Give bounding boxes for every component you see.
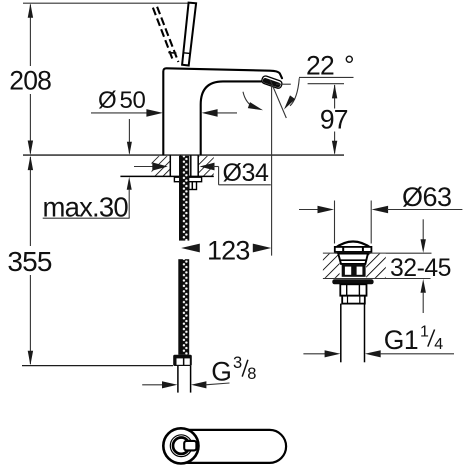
lever seam line [184, 52, 191, 55]
sink deck bottom line [323, 278, 431, 280]
hub middle ring [170, 435, 192, 457]
spout underside [201, 81, 262, 154]
hose end fitting [173, 355, 192, 366]
svg-text:G1: G1 [384, 325, 418, 355]
hose-end reference line [22, 365, 173, 367]
dimension 97 [334, 85, 336, 109]
jet direction line 22° [270, 80, 286, 118]
aerator housing at spout tip [261, 75, 283, 89]
svg-text:8: 8 [247, 365, 256, 383]
svg-text:1: 1 [420, 323, 429, 340]
svg-text:max.30: max.30 [43, 192, 129, 223]
hole wall left [169, 155, 171, 176]
svg-text:Ø63: Ø63 [402, 182, 452, 212]
swivel arc left [243, 92, 256, 109]
svg-text:208: 208 [9, 65, 51, 95]
hole wall right [197, 155, 199, 176]
svg-text:Ø34: Ø34 [223, 159, 270, 187]
nut under washer [180, 182, 196, 190]
spout outlet plane line (right) [308, 83, 344, 85]
label box Ø34 [218, 167, 220, 185]
drain cap base band [335, 251, 371, 254]
dimension Ø63 [299, 209, 319, 211]
sink deck hatch right [366, 254, 386, 278]
svg-text:97: 97 [320, 105, 348, 135]
dimension G3/8 [142, 384, 163, 386]
dimension G1 1/4 [303, 353, 325, 355]
22° underline [299, 76, 354, 78]
shank side right [190, 155, 192, 177]
spout outlet plane line (left) [276, 83, 291, 85]
deck bottom edge [120, 175, 213, 177]
Ø63 extension lines [334, 201, 336, 244]
dimension line 208 (vertical at x=30.4) [29, 5, 31, 67]
deck cross-section hatch left [152, 156, 171, 176]
flexible hose (braided) lower [178, 259, 189, 355]
drain lower step [342, 296, 365, 304]
shank side left [180, 155, 182, 177]
extension line: lever top [23, 2, 188, 4]
drain cap rim [335, 247, 372, 252]
svg-text:50: 50 [120, 87, 146, 114]
counter/deck reference line [23, 154, 344, 156]
svg-text:4: 4 [434, 336, 443, 353]
svg-text:123: 123 [207, 236, 250, 266]
dimension 32-45 [422, 219, 424, 240]
handle hub outer circle [163, 428, 198, 463]
sink deck hatch left [323, 254, 340, 278]
svg-text:3: 3 [233, 354, 242, 372]
drain slot body [342, 264, 366, 277]
drain cap dome [335, 242, 372, 249]
swivel arc right [290, 78, 299, 106]
threaded rod (braided) upper [179, 156, 189, 241]
svg-text:Ø: Ø [98, 87, 117, 114]
svg-text:355: 355 [7, 246, 52, 277]
spout outlet vertical line [271, 85, 273, 256]
svg-text:22: 22 [306, 50, 334, 80]
hub notch [184, 441, 196, 451]
drain washer [332, 279, 373, 284]
dimension line 355 (vertical at x=30.4) [29, 157, 31, 246]
dimension 123 [181, 244, 200, 253]
dimension Ø34 [134, 166, 154, 168]
dashed lever seam [168, 51, 176, 54]
sink deck top line [323, 252, 432, 254]
hub inner ring [173, 438, 189, 454]
drain tailpipe [340, 304, 342, 363]
lever (solid position) [182, 3, 196, 66]
dimension Ø50 [91, 112, 147, 114]
handle arm capsule [172, 430, 286, 463]
svg-text:32-45: 32-45 [390, 255, 451, 282]
drain locknut [340, 284, 366, 295]
G3/8 connector tube [177, 366, 179, 393]
washer under deck [174, 177, 201, 182]
svg-text:G: G [211, 357, 232, 387]
svg-text:°: ° [344, 50, 355, 80]
dimension max.30 [128, 119, 130, 154]
faucet body outline [163, 68, 282, 154]
drain neck [338, 254, 368, 264]
deck cross-section hatch right [198, 156, 214, 176]
lever (dashed alternate position) [153, 7, 179, 62]
